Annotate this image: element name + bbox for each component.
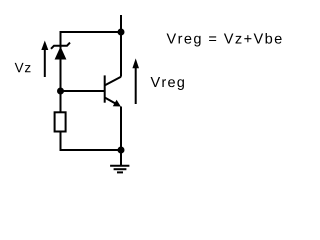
- wire: top rail: [60, 31, 122, 33]
- resistor R1: [55, 112, 66, 131]
- wire: collector: [120, 32, 122, 77]
- arrow: Vreg: [132, 58, 139, 104]
- wire: input stub top: [120, 15, 122, 32]
- arrow: Vz: [41, 41, 48, 78]
- node: base junction: [57, 88, 64, 95]
- wire: left branch lower: [60, 132, 62, 151]
- zener diode D1: [51, 43, 70, 60]
- label Vreg: [151, 77, 184, 90]
- wire: bottom rail: [60, 149, 122, 151]
- transistor Q1: [105, 75, 121, 106]
- wire: left branch upper: [60, 31, 62, 112]
- label Vz: [15, 63, 31, 72]
- wire: emitter: [120, 107, 122, 151]
- node: ground junction: [118, 147, 125, 154]
- wire: base: [61, 90, 105, 92]
- label equation Vreg = Vz+Vbe: [167, 33, 282, 47]
- node: top junction: [118, 29, 125, 36]
- ground: [110, 150, 129, 172]
